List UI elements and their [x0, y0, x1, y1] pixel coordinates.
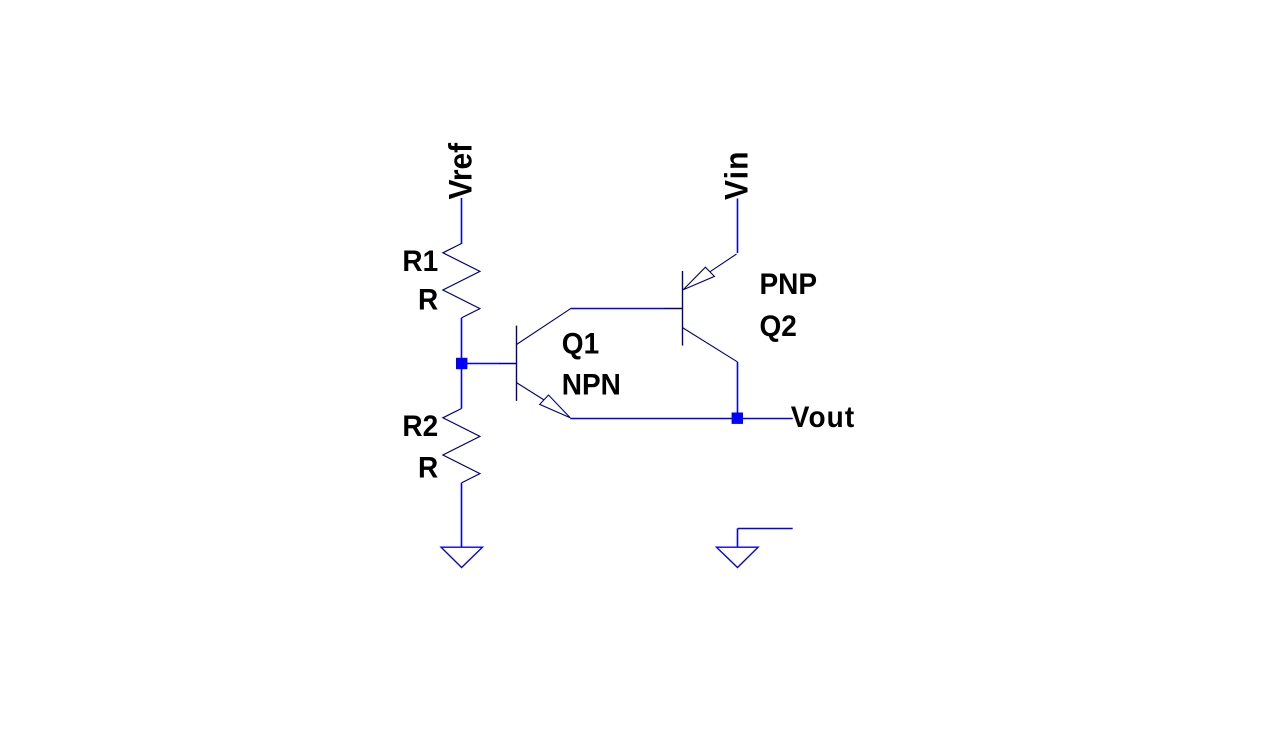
- resistor R2: [443, 409, 480, 483]
- wire Vin to Q2 emitter: [737, 199, 739, 254]
- label Q1: [562, 328, 599, 361]
- svg-text:Vout: Vout: [791, 401, 856, 434]
- wire node A to Q1 base: [462, 363, 501, 365]
- wire ground stub vertical: [737, 529, 739, 548]
- svg-text:PNP: PNP: [760, 268, 818, 301]
- svg-text:Q2: Q2: [760, 310, 797, 343]
- value label NPN: [562, 369, 621, 402]
- wire Vref to R1: [461, 198, 463, 244]
- ground symbol left: [441, 547, 482, 567]
- svg-text:Q1: Q1: [562, 328, 599, 361]
- node Vout junction square: [732, 413, 743, 424]
- resistor R1: [443, 244, 480, 318]
- svg-text:NPN: NPN: [562, 369, 621, 402]
- label PNP: [760, 268, 818, 301]
- wire Q1 collector to Q2 base: [571, 308, 664, 310]
- wire Q1 emitter to Vout: [570, 418, 793, 420]
- label Q2: [760, 310, 797, 343]
- svg-text:R: R: [418, 284, 438, 317]
- label R2: [402, 410, 438, 443]
- transistor Q1 (NPN): [500, 308, 572, 418]
- wire R1 to node A: [461, 318, 463, 364]
- transistor Q2 (PNP): [664, 254, 737, 362]
- svg-text:R2: R2: [402, 410, 438, 443]
- svg-text:Vin: Vin: [719, 150, 755, 200]
- wire R2 to ground: [461, 483, 463, 547]
- wire ground stub horizontal right: [738, 528, 793, 530]
- net label Vout: [791, 401, 856, 434]
- net label Vin (rotated): [719, 150, 755, 200]
- value label R of R2: [418, 451, 438, 484]
- svg-text:Vref: Vref: [443, 142, 479, 199]
- wire node A to R2: [461, 364, 463, 409]
- net label Vref (rotated): [443, 142, 479, 199]
- wire Q2 collector to node Vout: [737, 362, 739, 419]
- ground symbol right: [717, 547, 759, 567]
- label R1: [402, 245, 438, 278]
- value label R of R1: [418, 284, 438, 317]
- svg-text:R: R: [418, 451, 438, 484]
- svg-text:R1: R1: [402, 245, 438, 278]
- node A junction square: [456, 358, 467, 369]
